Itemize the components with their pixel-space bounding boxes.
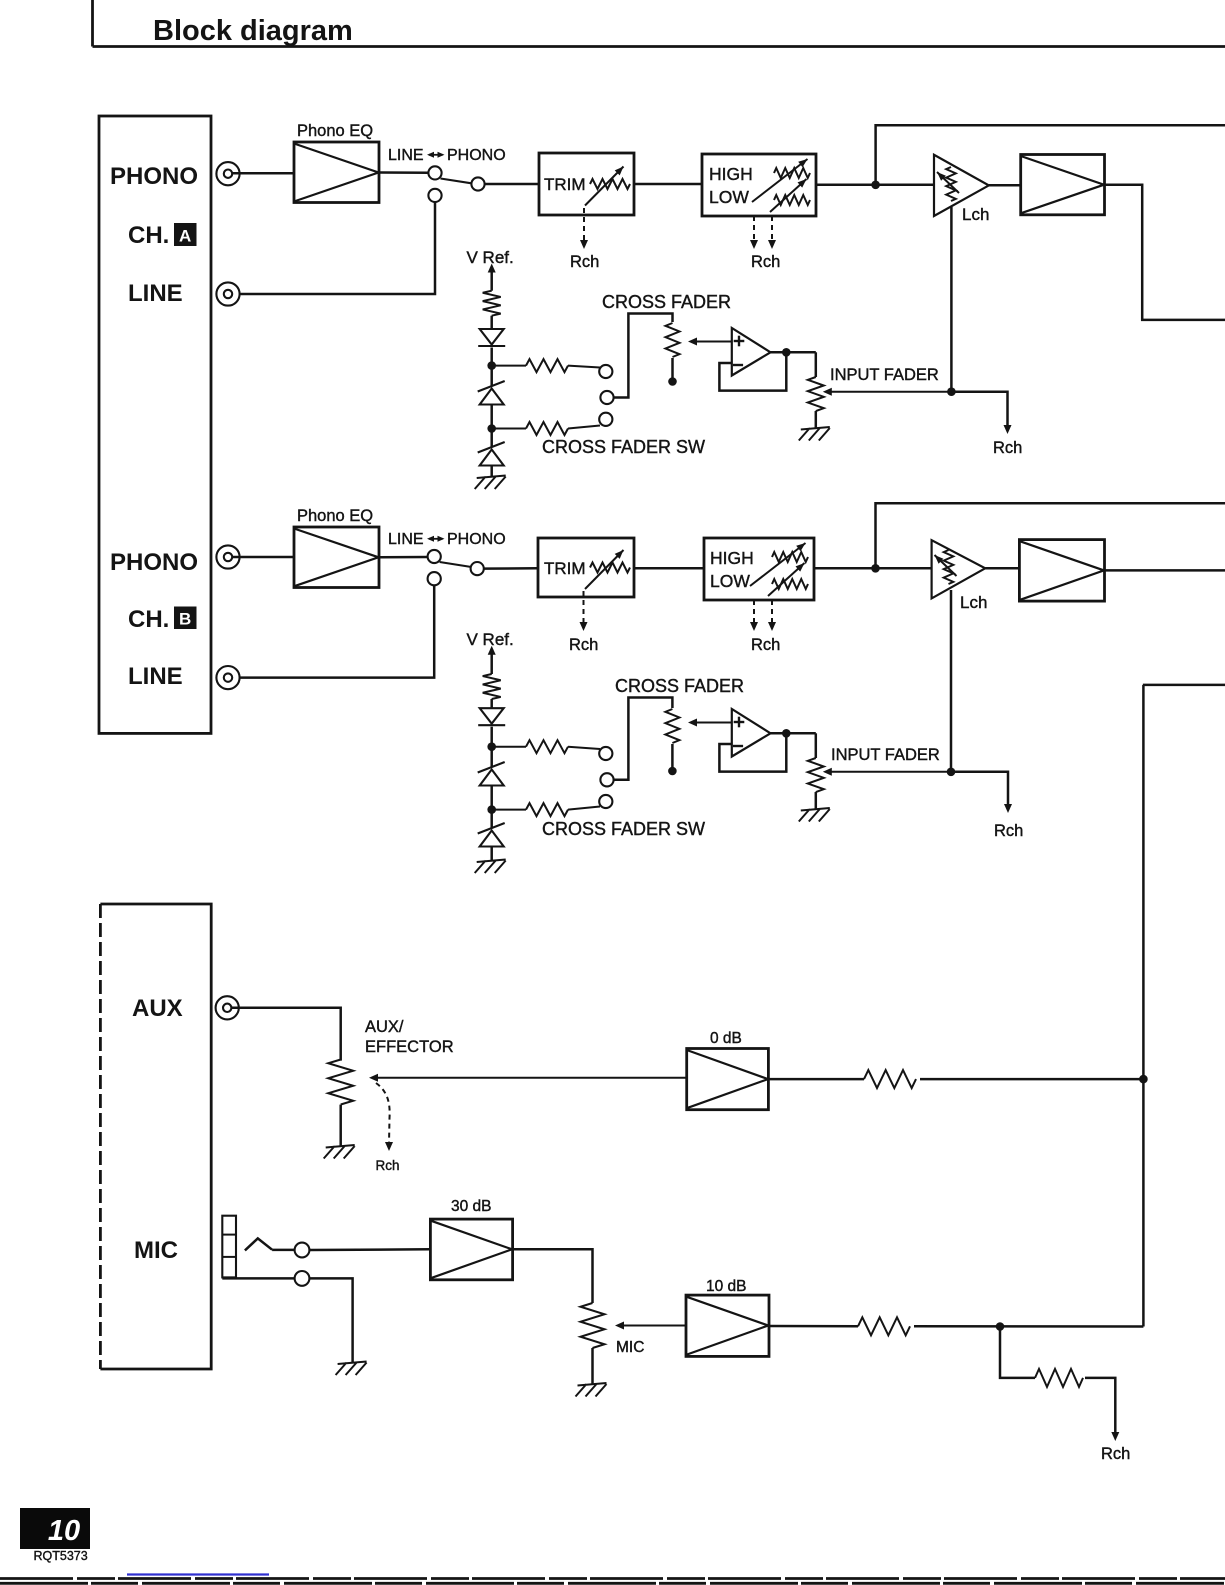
node divider 1 CH.B: [487, 742, 496, 751]
wire Rch branch CH.A: [951, 392, 1007, 427]
svg-text:AUX: AUX: [132, 995, 183, 1022]
wire wiper arrow cross fader CH.A: [692, 341, 732, 343]
dashed Rch link AUX: [376, 1083, 390, 1144]
switch LINE/PHONO CH.B: [428, 550, 441, 563]
ground INPUT FADER CH.B: [799, 808, 830, 822]
node AUX bus junction: [1139, 1075, 1148, 1084]
node MIC mix junction: [996, 1322, 1005, 1331]
wire TRIM to HIGH/LOW CH.A: [634, 183, 702, 186]
footer blue rule: [127, 1573, 269, 1575]
svg-text:Phono EQ: Phono EQ: [297, 507, 373, 525]
node divider 2 CH.A: [487, 424, 496, 433]
svg-text:CROSS FADER SW: CROSS FADER SW: [542, 437, 705, 457]
wire feedback op-amp CH.A: [719, 352, 786, 390]
node divider 1 CH.A: [487, 361, 496, 370]
switch CROSS FADER SW CH.A: [599, 365, 612, 378]
node input fader junction CH.B: [947, 768, 956, 777]
svg-text:Rch: Rch: [994, 822, 1023, 840]
amp Phono EQ CH.A: [294, 142, 379, 203]
wire op-amp output CH.A: [771, 351, 816, 354]
svg-text:10 dB: 10 dB: [706, 1278, 747, 1295]
svg-text:MIC: MIC: [616, 1339, 644, 1356]
svg-text:MIC: MIC: [134, 1237, 178, 1264]
variable resistor LOW CH.A: [774, 195, 810, 205]
wire switch to TRIM CH.B: [484, 567, 538, 570]
wire output to right edge CH.B: [1105, 569, 1225, 572]
wire AUX wiper to 0 dB amp: [373, 1077, 687, 1079]
diode D1 CH.B: [480, 708, 504, 724]
wire to right edge (Lch send) CH.B: [876, 503, 1225, 568]
svg-text:10: 10: [48, 1515, 80, 1547]
wire HIGH/LOW to Lch amp CH.B: [814, 567, 932, 570]
svg-text:Rch: Rch: [569, 636, 598, 654]
wire V Ref ladder CH.B: [490, 649, 493, 674]
variable resistor in Lch amp CH.B: [944, 550, 954, 584]
variable resistor HIGH CH.B: [772, 552, 808, 562]
svg-text:RQT5373: RQT5373: [34, 1549, 88, 1563]
svg-text:LINE: LINE: [128, 280, 183, 307]
ground MIC sleeve: [336, 1362, 367, 1376]
wire Rch branch CH.B: [951, 772, 1008, 806]
svg-text:CH.: CH.: [128, 222, 169, 249]
op-amp buffer CH.B: [732, 709, 771, 757]
wire Lch amp to output amp CH.A: [989, 184, 1021, 187]
resistor to cross fader sw lower CH.A: [492, 428, 526, 430]
svg-text:Phono EQ: Phono EQ: [297, 122, 373, 140]
svg-text:Lch: Lch: [962, 205, 989, 224]
node op-amp output CH.A: [782, 348, 791, 357]
amp output buffer CH.B: [1019, 540, 1104, 602]
svg-text:AUX/: AUX/: [365, 1018, 404, 1036]
box HIGH LOW CH.A: [702, 154, 816, 216]
input panel box AUX/MIC: [100, 904, 211, 1369]
wire bus vertical: [1142, 685, 1145, 1327]
ground MIC pot: [576, 1383, 607, 1397]
wire MIC sleeve to ground: [222, 1277, 294, 1280]
box TRIM CH.B: [538, 538, 634, 597]
svg-text:0 dB: 0 dB: [710, 1030, 742, 1047]
variable resistor TRIM CH.A: [590, 179, 630, 189]
resistor Rch branch MIC: [1035, 1369, 1083, 1387]
variable resistor LOW CH.B: [772, 579, 808, 589]
switch MIC jack: [245, 1238, 272, 1250]
dashed Rch links HIGH/LOW CH.A: [753, 216, 755, 242]
wire V Ref ladder CH.A: [490, 267, 493, 291]
wire to right edge (Lch send) CH.A: [876, 125, 1225, 185]
wire Lch amp to output amp CH.B: [985, 567, 1019, 570]
svg-text:HIGH: HIGH: [709, 164, 753, 184]
wire bus from right edge: [1143, 684, 1225, 687]
node input fader junction CH.A: [947, 387, 956, 396]
jack MIC: [222, 1216, 236, 1278]
svg-text:CROSS FADER SW: CROSS FADER SW: [542, 819, 705, 839]
op-amp buffer CH.A: [732, 328, 771, 376]
svg-text:A: A: [179, 227, 191, 246]
ground V Ref ladder CH.A: [475, 476, 506, 490]
wire LINE A to switch: [240, 202, 435, 294]
resistor to cross fader sw lower CH.B: [492, 809, 526, 811]
resistor to cross fader sw upper CH.A: [492, 365, 526, 367]
connector LINE CH.A: [216, 282, 239, 305]
svg-text:PHONO: PHONO: [447, 147, 506, 164]
svg-text:Lch: Lch: [960, 593, 987, 612]
input panel box CH.A/CH.B: [99, 116, 211, 733]
amp Lch fader CH.B: [932, 540, 986, 598]
svg-text:B: B: [179, 610, 191, 629]
connector LINE CH.B: [216, 666, 239, 689]
wire LINE B to switch: [240, 585, 434, 677]
ground AUX pot: [324, 1145, 355, 1159]
wire 30 dB amp to MIC pot: [513, 1249, 593, 1303]
svg-text:Block diagram: Block diagram: [153, 15, 353, 47]
wire wiper arrow cross fader CH.B: [692, 722, 732, 724]
wire switch to TRIM CH.A: [485, 183, 539, 186]
wire output to right edge CH.A: [1105, 185, 1225, 320]
svg-text:PHONO: PHONO: [447, 531, 506, 548]
svg-text:Rch: Rch: [1101, 1445, 1130, 1463]
ground INPUT FADER CH.A: [799, 427, 830, 441]
title rule vertical: [91, 0, 94, 47]
svg-text:CROSS FADER: CROSS FADER: [602, 292, 731, 312]
variable resistor HIGH CH.A: [774, 168, 810, 178]
wire input fader wiper from Lch CH.B: [826, 771, 951, 773]
connector AUX: [216, 996, 239, 1019]
switch LINE/PHONO CH.A: [428, 166, 441, 179]
dashed Rch links HIGH/LOW CH.B: [753, 600, 755, 624]
wire Phono EQ to switch: [379, 171, 428, 174]
wire sw to cross fader CH.B: [614, 698, 673, 780]
title rule horizontal: [93, 45, 1225, 48]
svg-text:V Ref.: V Ref.: [467, 630, 514, 649]
node op-amp output CH.B: [782, 729, 791, 738]
svg-text:V Ref.: V Ref.: [467, 248, 514, 267]
wire Lch wiper down CH.B: [950, 590, 953, 772]
svg-text:CROSS FADER: CROSS FADER: [615, 676, 744, 696]
wire TRIM to HIGH/LOW CH.B: [634, 567, 704, 570]
resistor to cross fader sw upper CH.B: [492, 746, 526, 748]
svg-text:EFFECTOR: EFFECTOR: [365, 1038, 454, 1056]
wire HIGH/LOW to Lch amp CH.A: [816, 184, 934, 187]
connector PHONO CH.A: [216, 162, 239, 185]
svg-text:30 dB: 30 dB: [451, 1198, 492, 1215]
svg-text:LINE: LINE: [388, 531, 424, 548]
svg-text:HIGH: HIGH: [710, 548, 754, 568]
page number plate 10: [20, 1508, 90, 1549]
zener diode D3 CH.A: [478, 442, 505, 453]
node Lch bus junction CH.B: [871, 564, 880, 573]
svg-text:PHONO: PHONO: [110, 549, 198, 576]
wire Rch branch MIC: [1000, 1327, 1035, 1378]
amp 30 dB: [430, 1219, 512, 1280]
svg-text:TRIM: TRIM: [544, 175, 586, 194]
svg-text:CH.: CH.: [128, 606, 169, 633]
svg-text:Rch: Rch: [993, 439, 1022, 457]
wire sw to cross fader CH.A: [614, 314, 673, 398]
resistor AUX mix: [768, 1078, 864, 1081]
variable resistor in Lch amp CH.A: [946, 167, 956, 201]
node cross fader bottom CH.A: [668, 377, 677, 386]
dashed Rch link TRIM CH.B: [583, 591, 585, 624]
wire feedback op-amp CH.B: [719, 733, 786, 771]
svg-text:PHONO: PHONO: [110, 163, 198, 190]
svg-text:LINE: LINE: [388, 147, 424, 164]
wire PHONO B to Phono EQ: [232, 556, 294, 559]
amp output buffer CH.A: [1021, 155, 1105, 215]
svg-text:INPUT FADER: INPUT FADER: [831, 746, 940, 764]
zener diode D2 CH.A: [478, 381, 505, 392]
amp Lch fader CH.A: [934, 155, 989, 216]
wire Phono EQ to switch CH.B: [379, 556, 428, 559]
connector PHONO CH.B: [216, 545, 239, 568]
zener diode D2 CH.B: [478, 762, 505, 773]
svg-text:INPUT FADER: INPUT FADER: [830, 366, 939, 384]
svg-text:LOW: LOW: [710, 571, 750, 591]
footer dashed rules: [0, 1577, 1225, 1580]
dashed Rch link TRIM CH.A: [583, 208, 585, 242]
svg-text:LINE: LINE: [128, 663, 183, 690]
resistor V Ref CH.B: [483, 674, 501, 699]
box HIGH LOW CH.B: [704, 538, 814, 600]
amp 10 dB: [686, 1295, 769, 1356]
svg-text:Rch: Rch: [751, 636, 780, 654]
svg-text:Rch: Rch: [751, 253, 780, 271]
diode D1 CH.A: [480, 329, 504, 345]
wire AUX to pot: [231, 1008, 340, 1061]
box TRIM CH.A: [539, 153, 634, 215]
wire MIC to 30 dB amp: [310, 1248, 431, 1251]
svg-text:Rch: Rch: [376, 1158, 400, 1173]
wire MIC wiper to 10 dB amp: [619, 1325, 686, 1327]
svg-text:LOW: LOW: [709, 187, 749, 207]
resistor MIC mix: [769, 1325, 858, 1328]
resistor V Ref CH.A: [483, 291, 501, 316]
wire input fader wiper from Lch CH.A: [826, 391, 951, 393]
ground V Ref ladder CH.B: [475, 860, 506, 874]
svg-text:TRIM: TRIM: [544, 559, 586, 578]
amp 0 dB: [687, 1049, 769, 1110]
node Lch bus junction CH.A: [871, 181, 880, 190]
node cross fader bottom CH.B: [668, 767, 677, 776]
wire PHONO A to Phono EQ: [232, 172, 294, 175]
amp Phono EQ CH.B: [294, 527, 379, 588]
wire op-amp output CH.B: [771, 732, 816, 735]
zener diode D3 CH.B: [478, 823, 505, 834]
variable resistor TRIM CH.B: [590, 563, 630, 573]
node divider 2 CH.B: [487, 805, 496, 814]
wire Lch wiper down CH.A: [950, 207, 953, 392]
potentiometer MIC level: [581, 1303, 605, 1348]
svg-text:Rch: Rch: [570, 253, 599, 271]
potentiometer AUX/EFFECTOR: [328, 1060, 353, 1105]
switch CROSS FADER SW CH.B: [599, 747, 612, 760]
